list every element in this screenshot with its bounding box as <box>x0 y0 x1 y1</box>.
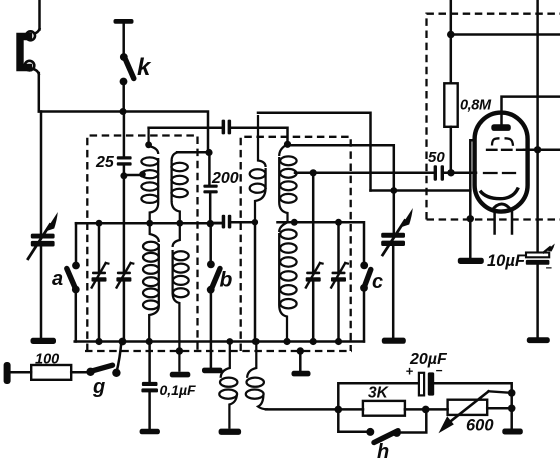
svg-text:600: 600 <box>466 417 494 435</box>
svg-text:50: 50 <box>428 149 445 166</box>
coil M upper section <box>279 144 296 222</box>
svg-text:0,1µF: 0,1µF <box>160 382 197 398</box>
ground bar cathode <box>458 258 484 264</box>
wire trimmer C1 to bus <box>98 282 101 342</box>
node mid-line / trimmer C1 <box>96 220 103 227</box>
node bus/C4 <box>335 338 342 345</box>
svg-text:c: c <box>372 271 383 293</box>
svg-text:−: − <box>546 263 553 275</box>
variable capacitor CV1 (antenna tuning) <box>28 212 58 259</box>
svg-text:−: − <box>436 364 443 378</box>
wire coupling upper to main coil top <box>231 128 287 145</box>
wire tap to coil L1 <box>124 174 143 177</box>
wire 10uF to ground <box>536 265 539 338</box>
tube anode plate <box>491 124 511 131</box>
wire trimmer C2 to bus <box>123 282 126 342</box>
node oscillator junction <box>390 187 397 194</box>
wire cathode line <box>371 189 471 192</box>
wire 600 to rail <box>487 407 512 410</box>
node bus/L3 <box>146 338 153 345</box>
wire 20uF branch up <box>338 383 418 409</box>
svg-text:b: b <box>220 269 233 292</box>
tube cathode <box>480 188 518 199</box>
node tap on L1 <box>139 171 146 178</box>
node AVC rail <box>534 146 541 153</box>
wire bus to CV1 <box>40 112 43 234</box>
ground chassis bar above switch k <box>114 19 134 24</box>
wire switch k to bus <box>122 82 125 112</box>
wire L2 top to 200 node <box>177 151 209 154</box>
ground chassis bar below CV1 <box>31 338 57 344</box>
wire switch c to bus corner <box>363 288 366 342</box>
node bus/T2 right <box>253 338 260 345</box>
node bus/k junction <box>120 108 127 115</box>
wire grid tap line <box>295 172 434 175</box>
wire 0.1uF to ground <box>148 392 151 429</box>
wire coupling lower to band filter II <box>231 221 255 224</box>
wire top bus B <box>258 113 371 191</box>
svg-text:a: a <box>52 268 63 290</box>
wire 0.8M to grid node <box>450 127 453 173</box>
ground bar CV2 <box>382 338 406 344</box>
resistor 3K <box>363 401 405 416</box>
wire mid-line band filter I <box>76 222 222 225</box>
switch a <box>67 262 80 294</box>
coupling capacitor upper <box>222 120 232 135</box>
resistor 0,8M <box>444 83 457 127</box>
coil S coupling winding <box>250 115 266 222</box>
wire plug to bus <box>38 73 41 112</box>
switch k <box>120 53 134 85</box>
switch h <box>366 428 401 443</box>
capacitor 50 <box>434 165 444 180</box>
node tap junction <box>120 172 127 179</box>
trimmer capacitor C2 <box>116 263 133 288</box>
svg-text:100: 100 <box>35 352 59 368</box>
capacitor 0,1uF <box>141 382 158 393</box>
tube screen grid <box>492 138 513 146</box>
wire anode lead <box>502 97 560 125</box>
wire CV2 to terminal bar <box>392 246 395 338</box>
wire 0.8M from top edge <box>450 0 453 83</box>
ground bar switch b <box>202 368 223 374</box>
node bus/T2 left <box>226 338 233 345</box>
wire 3K to node B <box>405 408 426 411</box>
wire AVC rail vertical <box>536 0 539 252</box>
svg-text:10µF: 10µF <box>487 252 526 270</box>
wire 200 node down <box>208 153 211 185</box>
wire mid-line to coupling cap lower <box>210 222 222 225</box>
svg-text:h: h <box>377 441 389 462</box>
switch g <box>86 365 120 377</box>
ground bar 0.1uF <box>140 429 160 435</box>
oscillator coil T2 right winding <box>246 342 268 410</box>
wire 0.1uF from bus <box>148 342 151 383</box>
wire L1 top to coupling cap upper <box>149 126 222 129</box>
wire B+ to right edge <box>451 33 560 36</box>
wire switch a to bus corner <box>75 290 78 342</box>
node bus/g <box>119 338 127 346</box>
svg-text:g: g <box>92 376 105 398</box>
wire 50 to grid <box>444 172 476 175</box>
node mid-line/L1-L3 <box>146 220 153 227</box>
switch b feed wire <box>209 224 212 261</box>
wire S line to bus <box>254 222 257 341</box>
trimmer capacitor C3 <box>306 263 323 288</box>
coil L3 <box>143 223 159 341</box>
node feedback right <box>422 406 430 414</box>
node rail 600 <box>508 405 516 413</box>
coil L1 primary <box>141 129 158 224</box>
node feedback left <box>335 406 343 414</box>
dashed mixer stage box bottom <box>427 218 560 220</box>
node shield ground can 1 <box>176 347 183 354</box>
coil L4 <box>173 223 189 372</box>
capacitor 20uF electrolytic <box>419 372 434 395</box>
svg-text:25: 25 <box>95 154 115 171</box>
node bus/C1 <box>95 338 102 345</box>
ground bar L4/can 1 <box>170 372 191 378</box>
ground bar rail <box>502 429 523 435</box>
dashed mixer stage box <box>427 14 560 220</box>
wire rail to ground <box>510 393 513 429</box>
wire k line down to trimmer C2 <box>123 176 126 272</box>
coil M lower section <box>279 222 296 341</box>
node grid/0.8M <box>447 169 454 176</box>
wire trimmer C4 to bus <box>337 282 340 342</box>
ground bar T2 <box>219 429 242 435</box>
node bus/M <box>283 338 290 345</box>
wire k line down to trimmer 25 <box>123 112 126 157</box>
dashed shield can 2 (band filter II) <box>241 137 351 351</box>
svg-text:+: + <box>406 364 414 379</box>
tube control grid dashed <box>487 149 523 151</box>
tube V1 envelope <box>475 113 528 212</box>
svg-text:3K: 3K <box>368 385 390 402</box>
trimmer capacitor C4 <box>331 263 348 288</box>
svg-text:0,8M: 0,8M <box>460 98 492 114</box>
trimmer capacitor C1 <box>92 263 109 288</box>
wire cathode to shield ground <box>469 191 472 259</box>
capacitor 10uF electrolytic <box>526 244 555 265</box>
dashed shield can 1 (band filter I) <box>87 136 197 352</box>
node B+ <box>447 31 455 39</box>
node tap / trimmer C3 <box>310 169 317 176</box>
dashed shield bottom edge <box>85 350 352 352</box>
node mid-tap/coil <box>291 219 298 226</box>
wire trimmer C1 line upper <box>98 223 101 271</box>
wire 200 to mid-line <box>209 193 212 223</box>
coupling capacitor lower <box>222 215 232 229</box>
node bus pass S <box>252 338 259 345</box>
wire bypass loop right <box>400 409 427 432</box>
svg-text:k: k <box>137 54 152 81</box>
capacitor 25 <box>117 156 132 165</box>
wire can 2 shield to ground <box>299 351 302 371</box>
wire switch g to bus <box>116 342 121 373</box>
node mid-line/200/switch b <box>207 220 214 227</box>
oscillator coil T2 left winding <box>219 342 237 429</box>
terminal bar left (earth) <box>4 362 11 384</box>
node mid-tap/trimmer C4 <box>335 219 342 226</box>
wire grid exit right <box>524 149 560 152</box>
node dashed box bottom <box>467 215 474 222</box>
node bus/C3 <box>310 338 317 345</box>
node shield ground can 2 <box>297 347 304 354</box>
wire trimmer C4 line <box>337 222 340 271</box>
wire CV1 to chassis bar <box>40 247 43 339</box>
wire trimmer C3 line <box>312 173 315 272</box>
node rail wiper <box>508 389 516 397</box>
wire terminal to 100 <box>10 371 31 374</box>
wire mid-line to switch a <box>75 223 78 262</box>
wire 25 to tap node <box>123 166 126 176</box>
resistor 100 <box>31 365 71 380</box>
node mid-line/L2-L4 <box>176 220 183 227</box>
ground bar can 2 <box>292 371 311 377</box>
wire 100 to switch g <box>71 371 87 374</box>
variable resistor 600 <box>439 391 512 433</box>
wire bypass loop left <box>338 409 366 431</box>
wire ground bar to switch k <box>122 23 125 57</box>
tube injection grid dashed <box>484 172 515 174</box>
wire mid-tap line <box>278 222 365 261</box>
ground bar 10uF <box>527 337 550 343</box>
wire switch b to ground <box>210 290 213 368</box>
wire T2 to feedback network <box>266 408 338 411</box>
wire screen lead along envelope <box>470 140 475 190</box>
svg-text:200: 200 <box>211 170 239 187</box>
wire oscillator coil top line <box>288 145 394 233</box>
wire 20uF to right rail <box>434 383 512 393</box>
coil L2 secondary <box>171 152 187 223</box>
tube heater <box>492 204 512 211</box>
node 200 top <box>205 149 212 156</box>
node small coil line <box>252 219 258 225</box>
heater pin 2 <box>511 212 514 234</box>
wire to 3K <box>338 408 363 411</box>
switch b <box>207 261 220 294</box>
node main coil top <box>284 141 291 148</box>
wire trimmer C3 to bus <box>312 282 315 342</box>
wire top bus A <box>39 112 208 153</box>
switch c <box>360 262 371 292</box>
node L1 top <box>145 141 152 148</box>
antenna plug J1 <box>20 29 40 74</box>
variable capacitor CV2 (oscillator tuning) <box>381 208 413 255</box>
wire ground bus <box>75 340 364 343</box>
wire antenna lead from top edge <box>38 0 41 30</box>
capacitor 200 <box>203 185 217 194</box>
wire node B to 600 <box>426 408 448 411</box>
heater pin 1 <box>493 212 496 234</box>
